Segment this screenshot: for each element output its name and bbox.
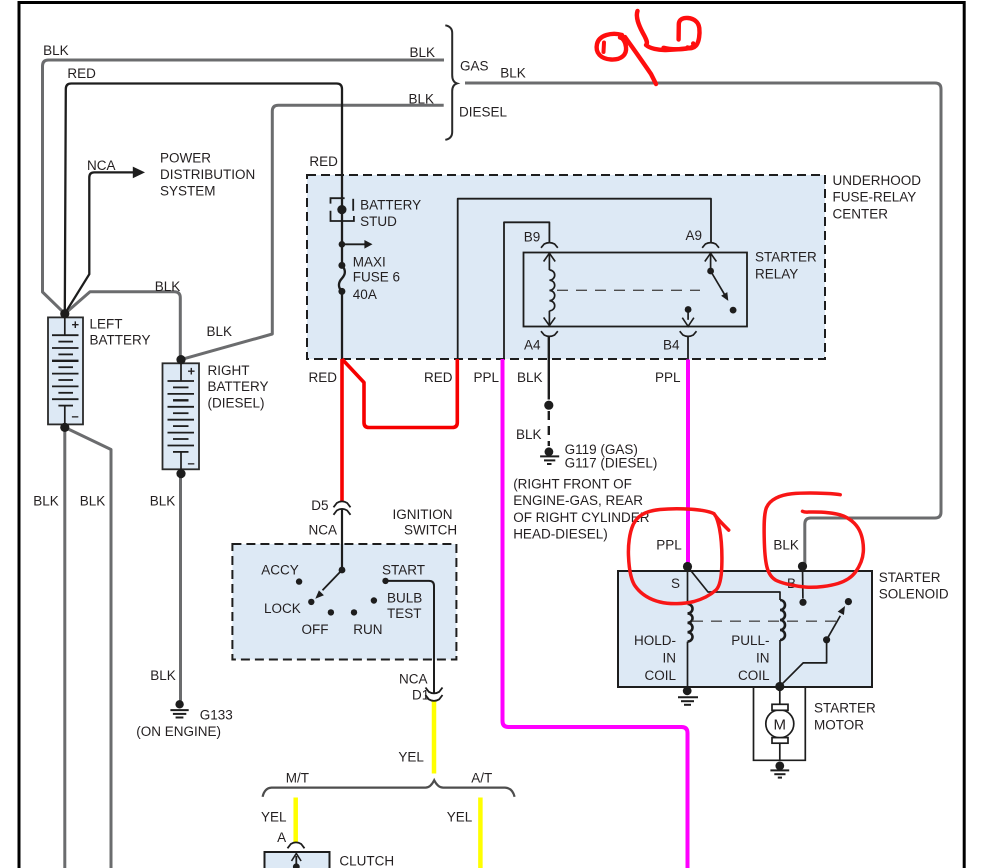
svg-text:B9: B9 [524, 230, 541, 245]
red annotation scribble top [597, 11, 700, 84]
ground G119/G117 labels [565, 442, 658, 471]
wire YEL D1 to brace [432, 701, 437, 774]
svg-text:ACCY: ACCY [261, 562, 299, 577]
wire BLK left battery - branch 1 [63, 427, 66, 868]
wire BLK diesel from brace to right battery + [181, 105, 444, 359]
ignition switch label [393, 507, 458, 537]
relay dashed separator [557, 289, 700, 291]
svg-text:+: + [188, 364, 196, 379]
label BLK to right battery [155, 279, 181, 294]
svg-text:CLUTCH: CLUTCH [339, 853, 394, 868]
ground location note [513, 477, 650, 542]
svg-text:RUN: RUN [353, 622, 382, 637]
wire YEL M/T branch [293, 798, 298, 843]
starter relay switch [682, 253, 736, 326]
label BLK top left [43, 43, 69, 58]
solenoid B contact [799, 566, 806, 606]
svg-text:RIGHT: RIGHT [208, 363, 250, 378]
svg-text:START: START [382, 562, 425, 577]
svg-text:SYSTEM: SYSTEM [160, 183, 216, 198]
svg-text:YEL: YEL [261, 810, 287, 825]
ground G133 label [136, 707, 232, 739]
label RED at fuse box top [309, 154, 338, 169]
starter solenoid S terminal [683, 562, 692, 571]
relay pin A4 connector [541, 331, 558, 336]
svg-text:BULB: BULB [387, 590, 422, 605]
label BLK merged [500, 66, 526, 81]
wire PPL from fuse box to bottom [503, 359, 688, 868]
label GAS [460, 58, 489, 73]
starter motor ground [770, 762, 789, 778]
svg-text:RED: RED [309, 370, 338, 385]
svg-text:RELAY: RELAY [755, 267, 798, 282]
svg-text:IGNITION: IGNITION [393, 507, 453, 522]
splice dot on A4 wire [544, 401, 553, 410]
wire NCA to power distribution system [65, 167, 145, 314]
battery stud [331, 198, 354, 221]
solenoid switch [780, 598, 852, 686]
wire inside fuse box: feed to relay switch A9 [458, 199, 711, 359]
svg-text:BLK: BLK [80, 494, 106, 509]
svg-text:POWER: POWER [160, 150, 211, 165]
svg-text:ENGINE-GAS, REAR: ENGINE-GAS, REAR [513, 493, 643, 508]
label A connector [277, 830, 286, 845]
svg-text:STARTER: STARTER [879, 570, 941, 585]
ignition switch contacts [296, 567, 389, 616]
junction arrow in fuse box [339, 240, 373, 249]
svg-text:BLK: BLK [207, 324, 233, 339]
left battery [48, 309, 83, 432]
label B [787, 576, 796, 591]
svg-text:NCA: NCA [87, 158, 116, 173]
GAS/DIESEL brace [445, 25, 457, 140]
label D5 [311, 498, 328, 513]
svg-text:COIL: COIL [738, 668, 770, 683]
svg-text:PPL: PPL [656, 538, 682, 553]
wire inside fuse box: B9 branch to PPL [504, 222, 549, 359]
label BLK at G119 wire [516, 427, 542, 442]
label NCA at D1 [399, 672, 428, 687]
wire black START to D1 [386, 581, 435, 693]
svg-text:40A: 40A [353, 287, 377, 302]
svg-text:NCA: NCA [309, 523, 338, 538]
left battery label [90, 316, 151, 347]
svg-text:NCA: NCA [399, 672, 428, 687]
underhood fuse-relay center label [833, 173, 922, 221]
svg-text:G119 (GAS): G119 (GAS) [565, 442, 638, 457]
svg-text:–: – [188, 456, 195, 471]
svg-text:BLK: BLK [500, 66, 526, 81]
label BLK at B [773, 538, 799, 553]
wire YEL A/T branch [478, 798, 483, 868]
svg-text:(ON ENGINE): (ON ENGINE) [136, 724, 221, 739]
ignition switch box [232, 544, 456, 660]
label RED top left [67, 66, 96, 81]
svg-text:STUD: STUD [360, 214, 397, 229]
svg-text:YEL: YEL [447, 810, 473, 825]
starter motor M [766, 687, 794, 761]
svg-text:MAXI: MAXI [353, 254, 386, 269]
starter solenoid B terminal [798, 562, 807, 571]
solenoid S to pull-in feed [688, 567, 781, 601]
wire BLK left battery + to right battery + [65, 292, 181, 360]
svg-text:RED: RED [424, 370, 453, 385]
starter motor housing [754, 687, 806, 760]
svg-text:G133: G133 [200, 707, 233, 722]
svg-text:SWITCH: SWITCH [404, 522, 457, 537]
svg-text:PULL-: PULL- [731, 633, 769, 648]
label A/T [471, 771, 492, 786]
svg-text:B4: B4 [663, 338, 680, 353]
label M/T [286, 771, 309, 786]
starter motor label [814, 701, 876, 733]
right battery label [208, 363, 269, 410]
svg-text:A: A [277, 830, 286, 845]
maxi fuse 6 [338, 262, 345, 295]
wire RED loop to relay feed [342, 359, 457, 428]
svg-text:YEL: YEL [398, 750, 424, 765]
svg-text:BLK: BLK [150, 494, 176, 509]
label BLK gas right [410, 45, 436, 60]
svg-text:BLK: BLK [155, 279, 181, 294]
wire BLK right battery - to G133 [179, 474, 182, 701]
svg-text:STARTER: STARTER [814, 701, 876, 716]
svg-text:(RIGHT FRONT OF: (RIGHT FRONT OF [513, 477, 632, 492]
wire RED fuse box to D5 ignition [340, 359, 344, 501]
solenoid dashed separator [692, 620, 836, 622]
relay pin labels [524, 228, 702, 353]
svg-text:BATTERY: BATTERY [360, 198, 421, 213]
labels RED RED PPL BLK PPL below fuse box [309, 370, 338, 385]
wire PPL B4 to starter solenoid S [687, 337, 689, 567]
svg-text:TEST: TEST [387, 606, 422, 621]
svg-text:DISTRIBUTION: DISTRIBUTION [160, 167, 255, 182]
svg-text:BLK: BLK [410, 45, 436, 60]
svg-text:LOCK: LOCK [264, 601, 301, 616]
solenoid hold-in coil [688, 567, 693, 688]
maxi fuse label [353, 254, 400, 302]
ground G119/G117 [540, 447, 559, 464]
svg-text:–: – [72, 409, 79, 424]
wire BLK merged from brace to starter solenoid B [465, 83, 941, 566]
label YEL above brace [398, 750, 424, 765]
svg-text:RED: RED [67, 66, 96, 81]
starter solenoid label [879, 570, 949, 602]
svg-text:OF RIGHT CYLINDER: OF RIGHT CYLINDER [513, 510, 650, 525]
starter relay box [524, 253, 748, 327]
relay pin A9 connector [702, 243, 719, 248]
solenoid output junction [775, 682, 784, 691]
label BLK diesel right [409, 91, 435, 106]
right battery [163, 355, 200, 478]
svg-text:HEAD-DIESEL): HEAD-DIESEL) [513, 527, 608, 542]
svg-text:G117 (DIESEL): G117 (DIESEL) [565, 456, 658, 471]
label BLK at right battery top [207, 324, 233, 339]
svg-text:IN: IN [663, 651, 677, 666]
relay pin B4 connector [680, 331, 697, 336]
svg-text:SOLENOID: SOLENOID [879, 587, 949, 602]
ground G133 [170, 700, 188, 717]
battery stud label [360, 198, 421, 229]
svg-text:STARTER: STARTER [755, 250, 817, 265]
svg-text:A/T: A/T [471, 771, 492, 786]
svg-text:D5: D5 [311, 498, 328, 513]
svg-text:(DIESEL): (DIESEL) [208, 395, 265, 410]
label DIESEL [459, 104, 508, 119]
svg-text:GAS: GAS [460, 58, 489, 73]
solenoid hold-in ground [678, 686, 698, 704]
solenoid coil labels [634, 633, 677, 683]
svg-text:BLK: BLK [517, 370, 543, 385]
svg-text:CENTER: CENTER [833, 206, 889, 221]
svg-text:BLK: BLK [516, 427, 542, 442]
svg-text:M/T: M/T [286, 771, 309, 786]
svg-text:DIESEL: DIESEL [459, 104, 508, 119]
svg-text:UNDERHOOD: UNDERHOOD [833, 173, 922, 188]
underhood fuse-relay center box [307, 175, 825, 359]
wire BLK A4 to ground G119 [548, 337, 550, 446]
relay pin B9 connector [541, 243, 558, 248]
clutch arrow [292, 854, 302, 868]
wire RED battery + to fuse box (drawn black) [65, 84, 342, 360]
svg-text:+: + [72, 317, 80, 332]
connector D5 [334, 501, 351, 514]
ignition switch position labels [261, 562, 425, 637]
label YEL A/T [447, 810, 473, 825]
svg-text:S: S [671, 576, 680, 591]
label NCA at D5 [309, 523, 338, 538]
svg-text:BLK: BLK [409, 91, 435, 106]
label CLUTCH [339, 853, 394, 868]
red annotation circle around BLK B [764, 493, 863, 587]
clutch box [265, 852, 330, 868]
labels BLK left bottom [33, 494, 59, 509]
svg-text:PPL: PPL [655, 370, 681, 385]
label D1 [412, 688, 429, 703]
label YEL M/T [261, 810, 287, 825]
svg-text:A4: A4 [524, 338, 541, 353]
svg-text:FUSE-RELAY: FUSE-RELAY [833, 190, 917, 205]
svg-text:HOLD-: HOLD- [634, 633, 676, 648]
starter relay label [755, 250, 817, 282]
svg-text:IN: IN [756, 651, 770, 666]
solenoid pull-in coil [780, 600, 785, 687]
label NCA power dist [87, 158, 116, 173]
label S [671, 576, 680, 591]
wire BLK left battery - branch 2 [65, 427, 111, 868]
power distribution system label [160, 150, 255, 198]
svg-text:BLK: BLK [43, 43, 69, 58]
svg-text:PPL: PPL [474, 370, 500, 385]
svg-text:BATTERY: BATTERY [90, 333, 151, 348]
red annotation circle around PPL S [628, 509, 728, 604]
starter relay coil B9-A4 [544, 253, 556, 325]
wire BLK gas from battery + to brace [43, 60, 445, 314]
svg-text:BLK: BLK [150, 668, 176, 683]
label PPL at S [656, 538, 682, 553]
connector D1 [426, 688, 443, 701]
svg-text:OFF: OFF [302, 622, 329, 637]
svg-text:COIL: COIL [644, 668, 676, 683]
wire black D5 to ignition switch [341, 509, 343, 570]
svg-text:M: M [774, 717, 787, 734]
svg-text:BATTERY: BATTERY [208, 379, 269, 394]
svg-text:A9: A9 [686, 228, 703, 243]
svg-text:FUSE 6: FUSE 6 [353, 269, 400, 284]
M/T A/T brace [263, 780, 515, 797]
svg-text:BLK: BLK [33, 494, 59, 509]
starter solenoid box [618, 571, 872, 687]
connector A [288, 842, 305, 848]
svg-text:RED: RED [309, 154, 338, 169]
svg-text:BLK: BLK [773, 538, 799, 553]
svg-text:MOTOR: MOTOR [814, 717, 864, 732]
svg-text:LEFT: LEFT [90, 316, 123, 331]
